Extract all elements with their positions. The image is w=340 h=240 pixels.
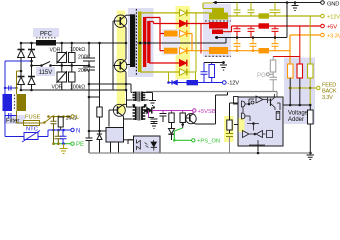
diode D8 mag-amp b (orange) — [180, 47, 187, 54]
transistor Q2 — [114, 59, 126, 72]
IC U2 standby controller — [106, 128, 124, 143]
wire: adder bottom bus — [283, 105, 310, 110]
capacitor bank +5V c3 — [272, 26, 279, 38]
switch: fuse to L line — [44, 118, 51, 124]
resistor voltage adder olive — [308, 16, 314, 105]
node: drive feed corner — [88, 83, 91, 86]
node: VDR2 top — [61, 64, 64, 67]
wire: D5 output to +12V choke — [187, 12, 209, 14]
wire: red winding b top to D6 — [149, 22, 179, 24]
node: feedback node b — [299, 87, 301, 89]
diode D9 +5V rectifier b (red) — [180, 60, 187, 67]
ground symbol: bottom right earth — [307, 155, 315, 159]
bridge rectifier diode D1 top-left — [18, 50, 25, 58]
wire: x88 column down — [88, 84, 90, 131]
wire: drive transformer top feed — [89, 84, 132, 93]
wire: supervisor to adder bus — [283, 104, 284, 106]
transformer T1 secondary winding 12V (olive) — [138, 12, 142, 73]
output terminal -12V — [223, 81, 227, 85]
node: switch right — [49, 64, 52, 67]
capacitor bank +3.3V c1 — [234, 38, 241, 51]
saturable reactor mag-amp row b — [164, 48, 178, 54]
node: gnd bus junction 1 — [236, 36, 239, 39]
label box: Filter — [4, 115, 25, 124]
supervisor internals — [242, 94, 281, 151]
capacitor PS_ON RC — [226, 134, 233, 137]
capacitor X2 — [9, 113, 11, 118]
node: T3 polarity dot right — [144, 104, 147, 107]
resistor voltage adder orange — [288, 64, 294, 105]
wire: AC mid rail (115V doubler line) — [32, 65, 90, 67]
transistor Q4 5VSB regulator — [185, 113, 196, 124]
svg-text:+5VSB: +5VSB — [198, 109, 216, 115]
fuse F1 — [17, 121, 45, 126]
wire: +5V choke lower out to rail — [223, 26, 321, 32]
supervisor top-left pin notch — [234, 97, 239, 105]
capacitor -12V — [201, 63, 208, 83]
node: T3 polarity dot left — [133, 104, 136, 107]
supervisor internals highlight — [239, 118, 245, 132]
wire: startup divider top — [89, 96, 100, 98]
thermistor NTC — [5, 131, 48, 143]
svg-text:NTC: NTC — [26, 127, 38, 133]
wire: -12V line — [169, 82, 223, 84]
node: adder bus 1 — [289, 104, 292, 107]
varistor VDR2 — [57, 66, 68, 91]
label: Voltage Adder — [288, 111, 309, 124]
svg-text:Filter: Filter — [6, 119, 19, 125]
node: y84 drive junction — [125, 83, 128, 86]
wire: PG tap — [270, 73, 274, 75]
resistor R2 100k — [69, 66, 76, 91]
svg-text:VDR: VDR — [52, 85, 63, 91]
wire: 5VSB primary bottom pin to Q3 — [124, 118, 133, 120]
transformer T1 primary winding — [130, 14, 135, 67]
svg-text:-12V: -12V — [228, 80, 240, 86]
inductor -12V (blue box) — [187, 80, 199, 85]
svg-text:Adder: Adder — [288, 117, 304, 123]
wire: -12V filter ground — [204, 63, 224, 65]
wire: Q4 emitter run to supervisor drop — [196, 92, 228, 125]
wire: Q2 base feed — [113, 65, 120, 67]
node: doubler tap on column2 — [30, 64, 33, 67]
input terminal PE — [71, 142, 74, 145]
svg-text:GND: GND — [327, 1, 339, 7]
capacitor L-N discharge — [51, 117, 57, 144]
bridge rectifier diode D3 bottom-left — [18, 77, 25, 85]
svg-text:Voltage: Voltage — [288, 111, 309, 117]
highlight band: mag-amp — [162, 29, 180, 55]
output terminal FEED BACK — [317, 86, 320, 89]
capacitor 5VSB c1 — [149, 118, 158, 124]
wire: bottom rail — [89, 146, 310, 153]
resistor PS_ON RC — [227, 103, 238, 134]
wire: half-bridge midpoint — [125, 28, 127, 60]
node: earth on gnd wire — [294, 1, 297, 4]
node: Q2 emitter at rail — [125, 89, 128, 92]
output terminal PG — [266, 73, 269, 76]
zener TL431 — [168, 128, 174, 141]
diode D5 +12V rectifier (olive) — [180, 10, 187, 17]
wire: base drive vertical — [112, 21, 114, 90]
wire: olive winding top to D5 — [140, 12, 179, 14]
node: bridge top-left corner — [20, 42, 23, 45]
input terminal L — [71, 115, 74, 118]
wire: HV- bottom rail — [21, 89, 126, 91]
node: center tap red b — [148, 42, 151, 45]
ground symbol: 5VSB c1 — [151, 124, 158, 129]
node: IC left node — [88, 130, 91, 133]
wire: red winding a top routing — [145, 18, 160, 51]
inductor +5V (red box) — [259, 23, 270, 28]
svg-text:FEED: FEED — [322, 83, 336, 89]
resistor voltage adder red — [297, 64, 303, 105]
wire: +5V sense drop to feedback — [200, 24, 202, 54]
node: bridge bottom junction — [30, 89, 33, 92]
output terminal +5V — [321, 24, 325, 28]
capacitor Y1 (olive to PE) — [55, 130, 62, 144]
ground symbol: PE earth — [60, 144, 68, 154]
wire: N riser — [48, 130, 71, 137]
node: drive gnd dot — [153, 106, 155, 108]
supervisor IC U4 — [238, 97, 283, 146]
wire: bridge column 1 — [20, 43, 22, 90]
svg-text:PFC: PFC — [40, 32, 53, 38]
output terminal +5VSB — [193, 109, 196, 112]
label box: PFC — [33, 28, 59, 37]
transformer T3 core — [138, 107, 140, 121]
wire: red +5V sense to adder — [273, 26, 300, 64]
output choke winding +12V lower (olive) — [209, 13, 228, 20]
capacitor Y2 (N to PE) — [60, 130, 67, 144]
label: FEED BACK 3.3V — [322, 83, 337, 101]
transistor Q3 5VSB switcher — [109, 104, 127, 127]
resistor startup — [97, 97, 102, 131]
svg-text:FUSE: FUSE — [25, 115, 41, 121]
bridge rectifier diode D4 bottom-right — [28, 77, 35, 85]
node: 3.3V rail junction 2 — [252, 49, 255, 52]
resistor 5VSB chain A — [169, 113, 174, 128]
highlight band: voltage adder column — [284, 58, 315, 125]
svg-text:+3.3V: +3.3V — [327, 34, 340, 40]
svg-text:PG: PG — [257, 73, 266, 79]
bulk capacitor C2 — [83, 67, 95, 84]
resistor PG divider — [270, 57, 276, 78]
core dashes between 12V and 5V windings — [205, 20, 231, 22]
svg-text:100kΩ: 100kΩ — [70, 85, 85, 91]
node: cap midpoint to 115V rail — [88, 64, 91, 67]
wire: secondary GND top — [213, 3, 321, 38]
node: T3 right lower pin dot — [144, 109, 147, 112]
ground symbol: -12V filter — [220, 65, 227, 70]
node: PS_ON junction — [173, 139, 176, 142]
node: filter top left — [4, 87, 6, 89]
PFC inductor L1 — [36, 38, 56, 46]
core dashes below 3.3V winding — [205, 55, 231, 57]
wire: olive winding bottom to D10 — [140, 71, 179, 73]
diode D10 -12V rectifier (olive) — [180, 69, 187, 76]
wire: PE line — [54, 143, 72, 145]
wire: HV+ top rail from bridge to half-bridge — [21, 42, 126, 44]
svg-text:115V: 115V — [39, 70, 53, 76]
node: L dots — [47, 115, 69, 118]
bridge rectifier diode D2 top-right — [28, 50, 35, 58]
capacitor X1 (bars on top line) — [9, 86, 11, 91]
node: divider to IC — [98, 130, 101, 133]
wire: choke pins — [4, 88, 6, 116]
node: feedback node a — [289, 87, 292, 90]
transformer T3 5VSB: right winding — [142, 107, 145, 121]
wire: feedback summing to FEED BACK terminal — [289, 87, 317, 89]
node: center tap olive — [139, 42, 142, 45]
resistor -12V bleeder — [209, 63, 215, 83]
node: gnd bus bullet — [215, 36, 218, 39]
node: R2 top — [71, 64, 74, 67]
output choke winding +5V lower (red) — [212, 30, 223, 35]
wire: D6 output to +5V choke — [187, 23, 209, 25]
node: startup chain top — [98, 42, 101, 45]
node: VDR1 top — [61, 42, 64, 45]
wire: red winding b bottom to D9 — [149, 62, 179, 64]
svg-text:+PS_ON: +PS_ON — [197, 139, 220, 145]
wire: secondary center tap ground return — [137, 38, 226, 44]
wire: AC line olive from filter to bridge — [17, 71, 22, 92]
diode D12 5VSB rectifier — [145, 107, 152, 113]
output choke winding +12V upper (olive) — [212, 8, 224, 13]
ground symbol: output common — [292, 3, 299, 11]
node: AC tap blue on column2 — [30, 60, 33, 63]
capacitor bank +5V c2 — [248, 26, 255, 38]
output terminal GND — [321, 1, 325, 5]
node: switch left — [40, 64, 43, 67]
node: bridge bottom-left corner — [20, 89, 23, 92]
wire: 5VSB primary top pin — [127, 90, 133, 107]
wire: -12V from D10 — [169, 72, 196, 83]
output terminal +PS_ON — [192, 139, 195, 142]
node: gnd bus junction 2 — [252, 36, 255, 39]
resistor voltage adder output — [308, 110, 314, 153]
output choke winding +5V upper (red) — [209, 22, 228, 29]
svg-text:PE: PE — [76, 142, 84, 148]
node: N dots — [52, 129, 65, 132]
diode D6 +5V rectifier a (red) — [180, 20, 187, 27]
label box: 115V — [36, 67, 55, 76]
node: PE dot 2 — [57, 142, 60, 145]
wire: PS_ON cap to rail — [229, 137, 231, 153]
common mode choke L2: blue winding — [3, 94, 13, 111]
capacitor bank +3.3V c3 — [272, 38, 279, 51]
capacitor bank +3.3V c2 — [250, 38, 257, 51]
node: gnd vertical top — [286, 1, 289, 4]
wire: Q1 base feed — [113, 20, 120, 22]
switch SW1 115V selector — [42, 62, 51, 66]
node: -12V gnd stub — [222, 61, 225, 64]
node: adder bus 2 — [299, 104, 302, 107]
highlight band: main transformer — [128, 8, 154, 77]
wire: secondary GND bus — [215, 37, 287, 39]
wire: Q1 collector to primary top — [126, 14, 131, 16]
capacitor bank +12V c2 — [248, 3, 255, 17]
wire: L line — [51, 117, 71, 118]
diode D7 mag-amp a (orange) — [180, 30, 187, 37]
output terminal +12V — [321, 14, 325, 18]
node: R1 top — [71, 42, 74, 45]
wire: mag-amp feed red — [160, 34, 164, 51]
wire: +12V rail — [228, 15, 321, 17]
node: center tap red a — [144, 42, 147, 45]
inductor +12V (olive box) — [259, 13, 270, 18]
capacitor bank +12V c1 — [234, 3, 241, 17]
zener PWM — [97, 131, 102, 153]
wire: +12V sense drop to feedback — [195, 13, 197, 72]
svg-text:BACK: BACK — [322, 89, 337, 95]
diode D11 -12V (blue, pointing left) — [172, 80, 177, 84]
wire: drive primary return — [127, 90, 133, 100]
wire: +PS_ON pull — [174, 128, 191, 140]
node: gnd bullet top — [214, 1, 217, 4]
svg-text:+12V: +12V — [327, 15, 340, 21]
resistor 5VSB chain B — [180, 113, 185, 128]
transformer T2 core — [138, 92, 140, 102]
wire: bridge column 2 — [31, 43, 33, 90]
node: cap C1 top on HV rail — [88, 42, 91, 45]
node: base divider — [181, 123, 184, 126]
wire: filter top X line — [5, 87, 17, 89]
wire: IC pins down — [111, 142, 119, 153]
output terminal +3.3V — [321, 33, 325, 37]
wire: filter bottom X line — [5, 116, 17, 137]
wire: startup chain from HV rail — [99, 43, 101, 98]
input terminal N — [71, 128, 74, 131]
ground symbol: drive transformer — [149, 101, 156, 106]
svg-text:N: N — [76, 129, 80, 135]
wire: mag-amp diode outputs join — [187, 34, 209, 51]
transformer T1 secondary winding 5V b (red) — [147, 21, 150, 63]
resistor R1 100k — [69, 43, 76, 66]
transformer T2 drive: left winding — [133, 92, 136, 102]
transistor Q1 — [114, 15, 126, 27]
wire: +3.3V rail — [228, 35, 321, 64]
highlight band: secondary rectifier diodes — [176, 6, 191, 79]
wire: IC to optocoupler — [124, 139, 134, 141]
svg-text:3.3V: 3.3V — [322, 95, 333, 101]
wire: AC line blue from filter to bridge — [5, 61, 32, 88]
wire: supervisor left pin — [234, 124, 238, 126]
capacitor bank +5V c1 — [234, 26, 241, 38]
transformer T1 secondary winding 5V a (red) — [143, 17, 146, 67]
transformer T2 drive: right winding — [142, 92, 145, 102]
node: PE dots — [52, 142, 55, 145]
node: gnd bus junction 3 — [274, 36, 277, 39]
optocoupler U3 — [134, 136, 161, 153]
node: PE earth tap — [62, 142, 65, 145]
capacitor PG — [270, 77, 278, 91]
node: bridge top junction — [30, 42, 33, 45]
node: supervisor gnd at rail — [257, 152, 260, 155]
node: fuse switch end — [43, 121, 45, 123]
node: startup node — [88, 96, 91, 99]
highlight band: primary switching transistors — [117, 11, 125, 114]
capacitor bank +12V c3 — [270, 3, 281, 17]
wire: choke start loop to gnd — [203, 3, 213, 9]
common mode choke core — [14, 95, 16, 111]
bulk capacitor C1 — [83, 43, 95, 67]
wire: drive secondary to earth — [145, 93, 152, 101]
node: adder bus 3 — [309, 104, 312, 107]
node: midpoint on HV rail — [125, 42, 128, 45]
wire: choke olive pins — [16, 88, 18, 123]
capacitor PWM left — [86, 131, 93, 153]
inductor +3.3V (orange box) — [259, 48, 270, 53]
transformer T3 5VSB: left winding — [133, 107, 136, 121]
svg-text:VDR: VDR — [50, 48, 61, 54]
wire: IC left feed — [89, 130, 106, 132]
transformer T1 core — [135, 9, 137, 76]
wire: primary bottom return — [126, 64, 131, 66]
varistor VDR1 — [57, 43, 68, 66]
common mode choke L2: olive winding — [17, 94, 27, 111]
wire: +5VSB rail magenta — [149, 111, 194, 118]
saturable reactor mag-amp row a — [164, 31, 178, 37]
highlight band: output choke assembly — [203, 4, 231, 57]
svg-text:+5V: +5V — [327, 25, 337, 31]
capacitor 5VSB c2 — [160, 114, 167, 123]
output choke winding +3.3V (orange) — [209, 47, 228, 54]
svg-text:100kΩ: 100kΩ — [70, 47, 85, 53]
node: adder output to rail — [309, 152, 312, 155]
node: 3.3V rail junction 1 — [236, 49, 239, 52]
node: filter top right — [15, 87, 17, 89]
highlight box: PS_ON RC — [224, 116, 234, 142]
node: -12V diode input — [167, 81, 170, 84]
node: feedback node c — [309, 87, 311, 89]
wire: Q2 emitter to HV- rail — [125, 72, 127, 90]
node: AC tap olive on column1 — [20, 70, 23, 73]
wire: opto input left — [128, 140, 134, 144]
wire: secondary common bus — [146, 92, 277, 98]
resistor 1M bleeder — [58, 117, 63, 131]
